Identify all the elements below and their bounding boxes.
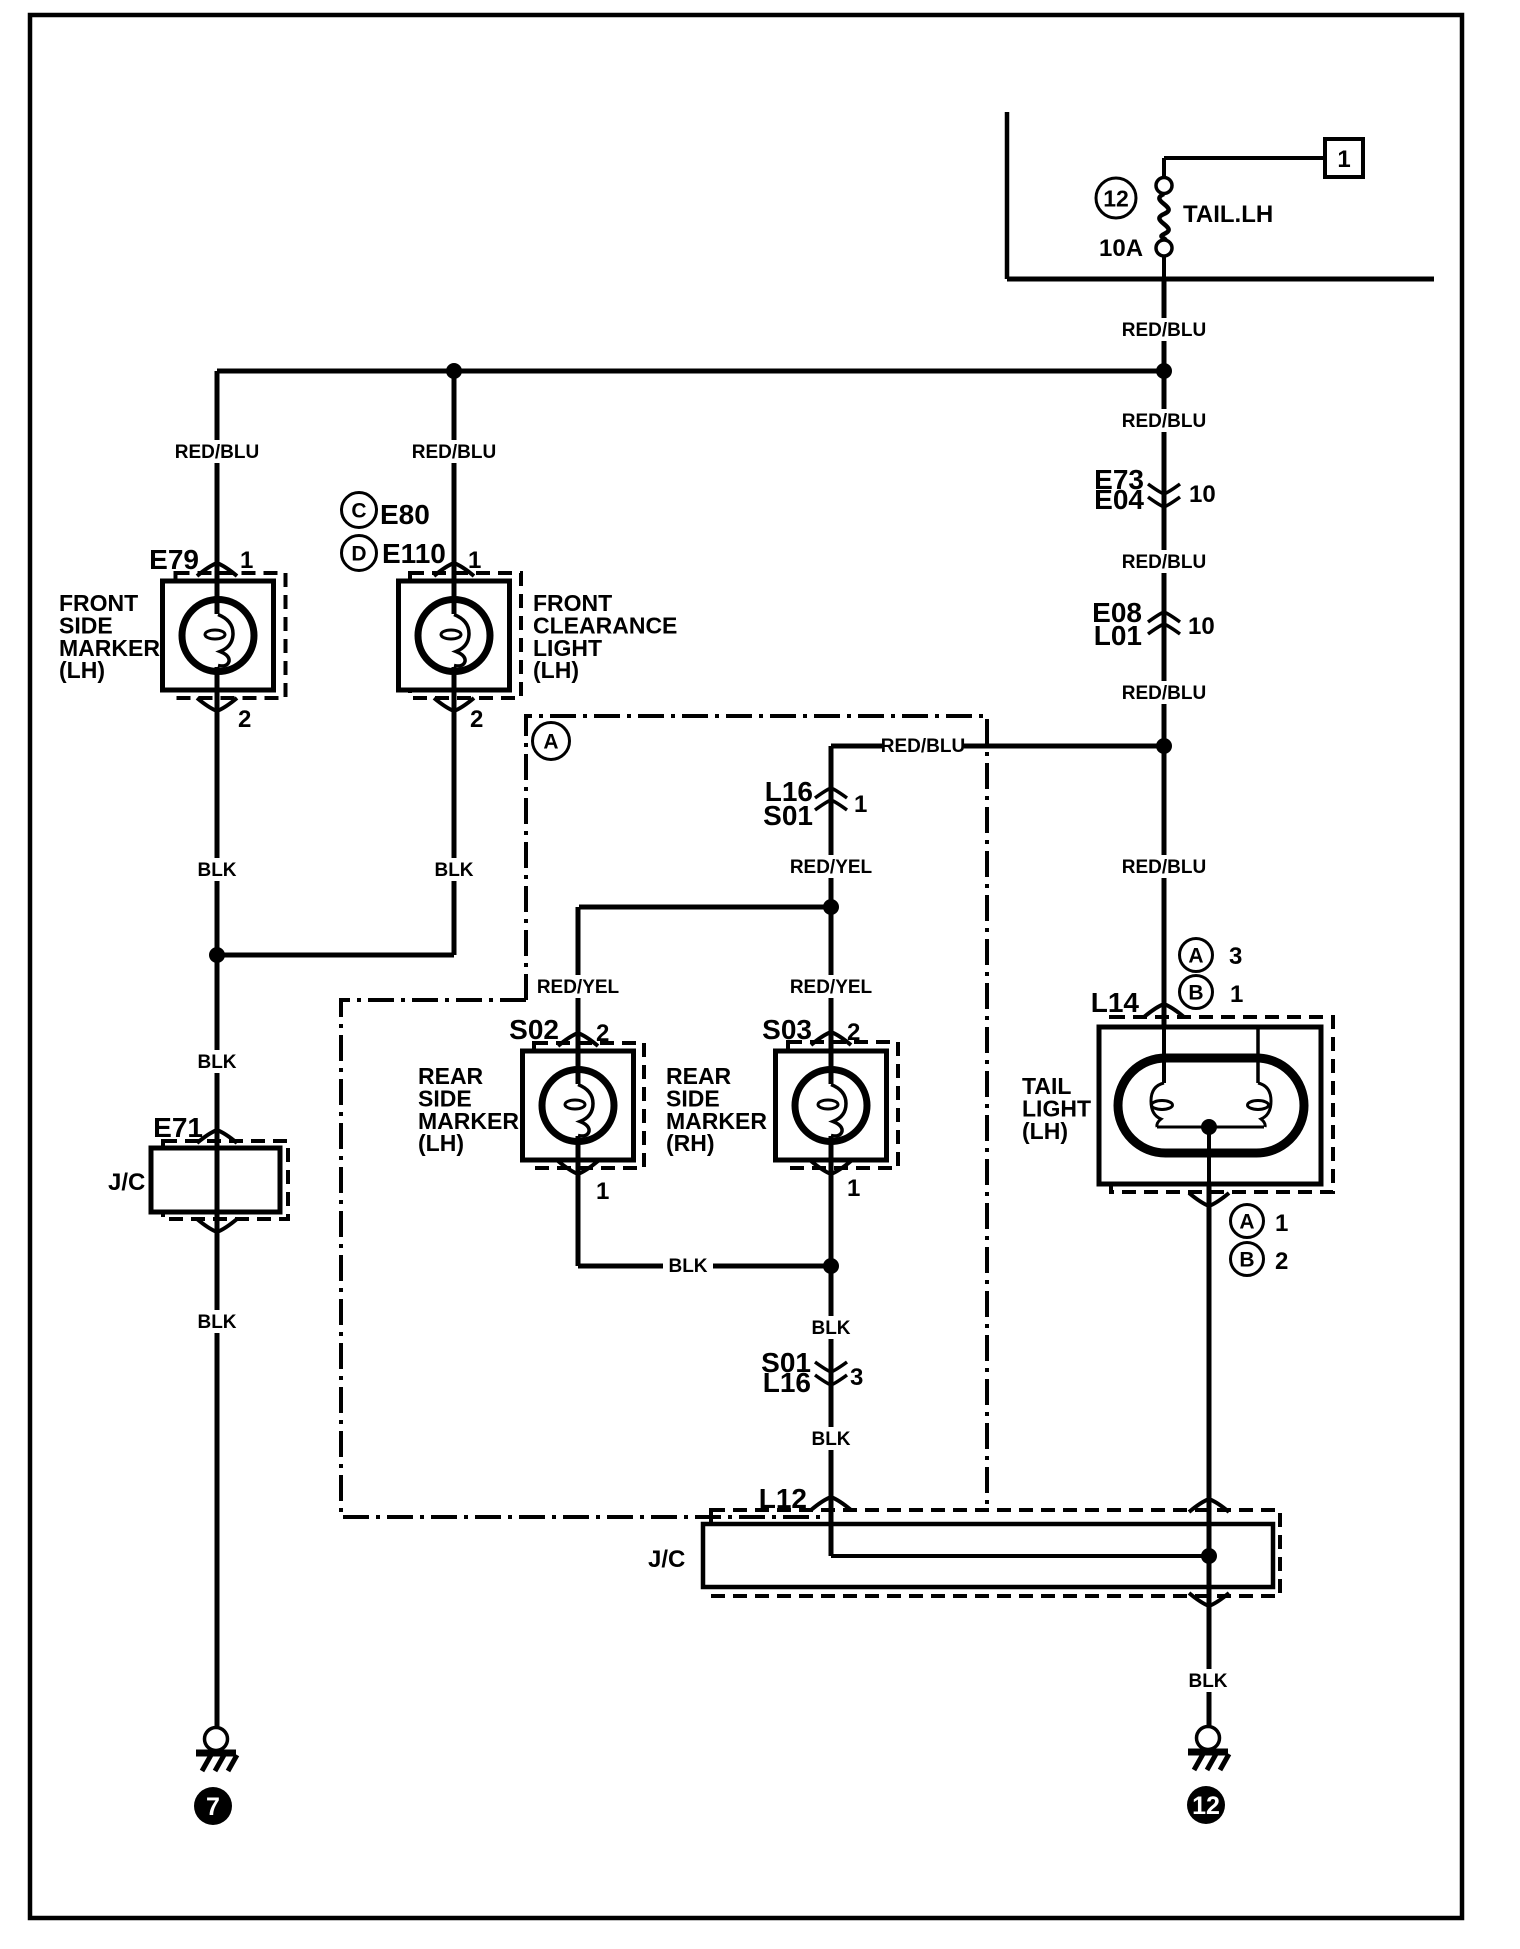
svg-text:RED/BLU: RED/BLU xyxy=(1122,552,1206,573)
svg-text:S01: S01 xyxy=(763,800,813,831)
svg-text:12: 12 xyxy=(1192,1792,1220,1820)
svg-text:A: A xyxy=(1188,945,1203,968)
svg-text:B: B xyxy=(1188,982,1203,1005)
svg-text:2: 2 xyxy=(847,1019,860,1046)
svg-text:J/C: J/C xyxy=(648,1546,685,1573)
svg-text:RED/BLU: RED/BLU xyxy=(412,442,496,463)
svg-text:RED/YEL: RED/YEL xyxy=(537,977,620,998)
svg-text:TAIL.LH: TAIL.LH xyxy=(1183,201,1273,228)
svg-text:E80: E80 xyxy=(380,499,430,530)
svg-text:RED/BLU: RED/BLU xyxy=(881,736,965,757)
svg-text:D: D xyxy=(351,543,366,566)
svg-text:BLK: BLK xyxy=(434,860,473,881)
svg-text:2: 2 xyxy=(470,706,483,733)
svg-text:E71: E71 xyxy=(153,1112,203,1143)
svg-text:(LH): (LH) xyxy=(1022,1118,1068,1144)
svg-text:3: 3 xyxy=(850,1364,863,1391)
svg-text:L12: L12 xyxy=(759,1483,807,1514)
svg-text:RED/BLU: RED/BLU xyxy=(1122,857,1206,878)
svg-text:BLK: BLK xyxy=(197,1312,236,1333)
svg-text:S03: S03 xyxy=(762,1014,812,1045)
svg-text:1: 1 xyxy=(596,1178,609,1205)
svg-text:2: 2 xyxy=(1275,1248,1288,1275)
svg-text:RED/BLU: RED/BLU xyxy=(1122,683,1206,704)
svg-text:1: 1 xyxy=(468,547,481,574)
svg-text:C: C xyxy=(351,500,366,523)
svg-text:E79: E79 xyxy=(149,544,199,575)
svg-text:1: 1 xyxy=(854,791,867,818)
svg-text:L01: L01 xyxy=(1094,620,1142,651)
svg-text:10: 10 xyxy=(1189,481,1216,508)
svg-text:RED/BLU: RED/BLU xyxy=(1122,320,1206,341)
svg-text:(LH): (LH) xyxy=(418,1130,464,1156)
svg-text:1: 1 xyxy=(847,1175,860,1202)
svg-text:RED/YEL: RED/YEL xyxy=(790,977,873,998)
svg-text:A: A xyxy=(1239,1211,1254,1234)
svg-text:BLK: BLK xyxy=(811,1318,850,1339)
svg-text:1: 1 xyxy=(1275,1210,1288,1237)
svg-text:BLK: BLK xyxy=(197,860,236,881)
svg-text:BLK: BLK xyxy=(668,1256,707,1277)
svg-text:L16: L16 xyxy=(763,1367,811,1398)
svg-text:12: 12 xyxy=(1103,185,1129,211)
svg-text:A: A xyxy=(543,731,558,754)
svg-text:2: 2 xyxy=(238,706,251,733)
svg-text:BLK: BLK xyxy=(197,1052,236,1073)
svg-text:(LH): (LH) xyxy=(59,657,105,683)
svg-text:(LH): (LH) xyxy=(533,657,579,683)
svg-text:2: 2 xyxy=(596,1020,609,1047)
svg-text:RED/BLU: RED/BLU xyxy=(175,442,259,463)
svg-text:E110: E110 xyxy=(382,538,446,569)
svg-text:1: 1 xyxy=(240,547,253,574)
svg-text:B: B xyxy=(1239,1249,1254,1272)
svg-text:RED/BLU: RED/BLU xyxy=(1122,411,1206,432)
svg-text:L14: L14 xyxy=(1091,987,1140,1018)
svg-text:(RH): (RH) xyxy=(666,1130,715,1156)
svg-text:1: 1 xyxy=(1337,146,1350,173)
svg-text:BLK: BLK xyxy=(811,1429,850,1450)
svg-text:10: 10 xyxy=(1188,613,1215,640)
svg-text:J/C: J/C xyxy=(108,1169,145,1196)
svg-text:1: 1 xyxy=(1230,981,1243,1008)
svg-text:3: 3 xyxy=(1229,943,1242,970)
svg-text:7: 7 xyxy=(206,1793,220,1821)
svg-text:10A: 10A xyxy=(1099,235,1143,262)
svg-text:S02: S02 xyxy=(509,1014,559,1045)
svg-text:RED/YEL: RED/YEL xyxy=(790,857,873,878)
svg-text:E04: E04 xyxy=(1094,484,1144,515)
svg-text:BLK: BLK xyxy=(1188,1671,1227,1692)
